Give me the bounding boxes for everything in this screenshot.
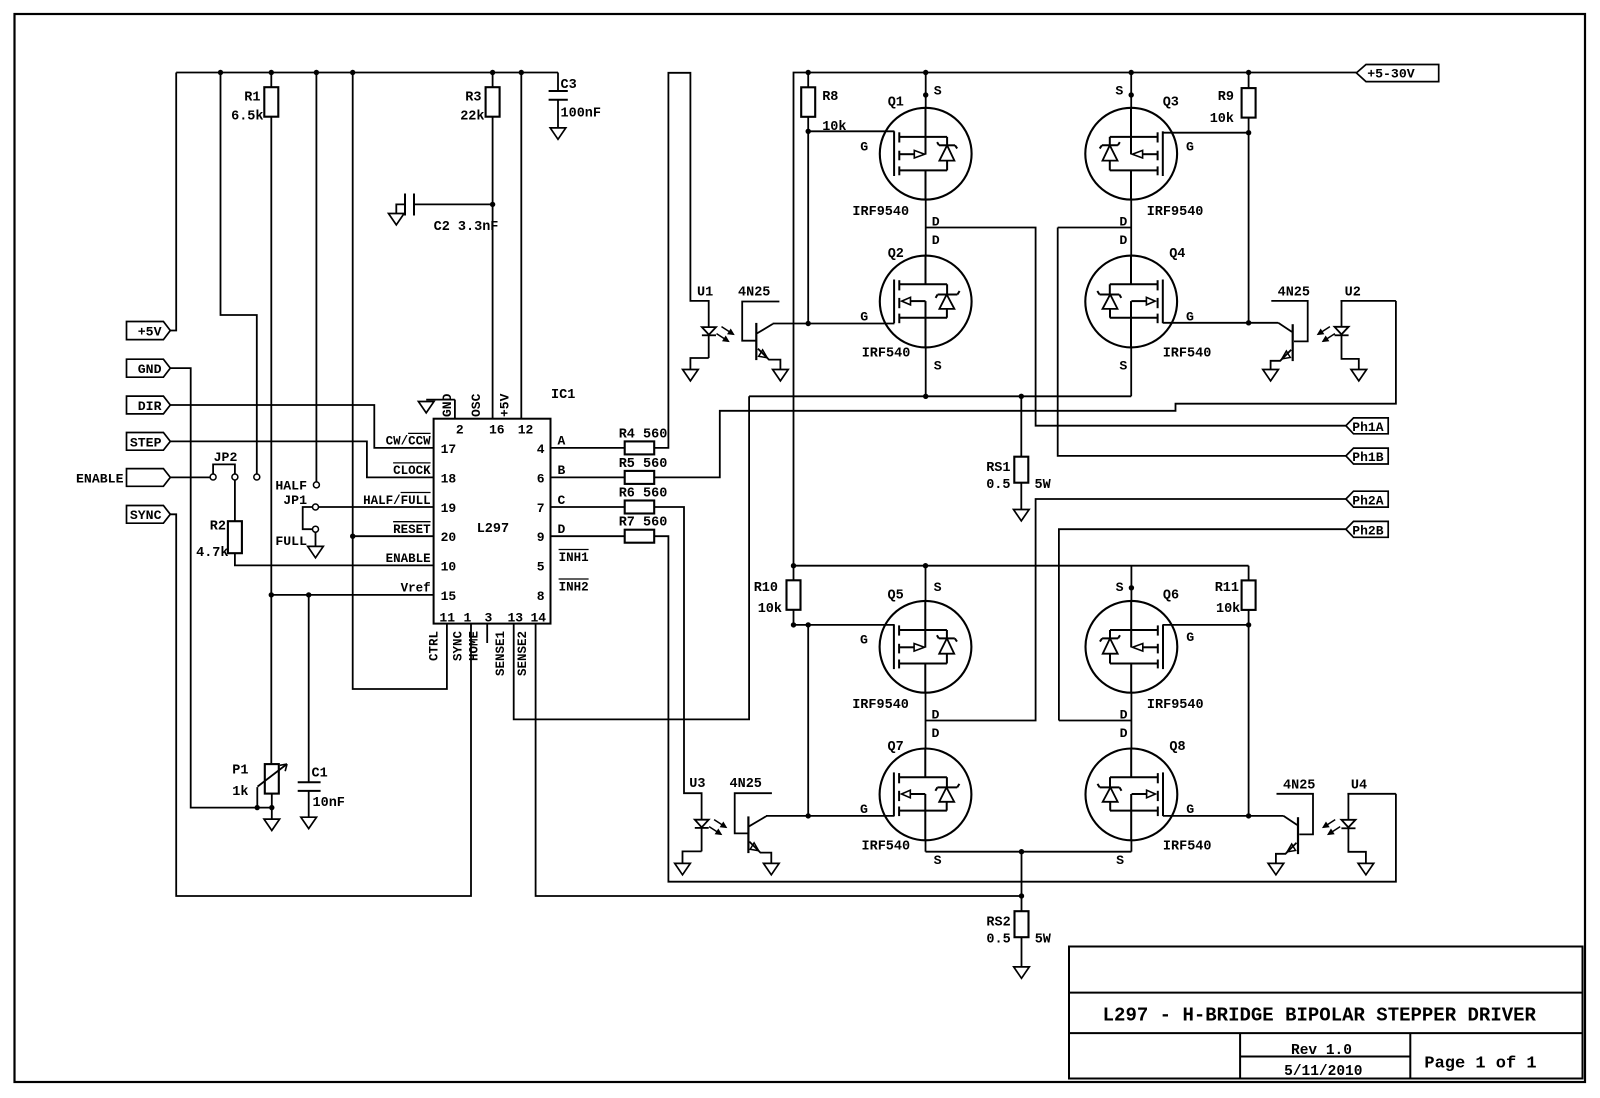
svg-text:IRF540: IRF540 bbox=[862, 839, 911, 854]
svg-text:G: G bbox=[860, 802, 868, 817]
svg-text:IRF9540: IRF9540 bbox=[1147, 205, 1204, 220]
svg-text:GND: GND bbox=[440, 393, 455, 417]
svg-text:18: 18 bbox=[441, 471, 457, 486]
+5-30V power flag bbox=[1356, 65, 1438, 82]
svg-text:SENSE2: SENSE2 bbox=[516, 631, 530, 676]
wire Q1 drain to phase node bbox=[925, 200, 927, 228]
svg-text:HALF/FULL: HALF/FULL bbox=[363, 494, 431, 508]
svg-text:HOME: HOME bbox=[468, 631, 482, 661]
svg-text:DIR: DIR bbox=[138, 399, 162, 414]
svg-text:GND: GND bbox=[138, 362, 162, 377]
svg-text:5: 5 bbox=[537, 559, 545, 574]
wire STEP to pin 18 bbox=[170, 441, 433, 477]
ground for U1 LED bbox=[683, 370, 699, 381]
svg-text:15: 15 bbox=[441, 589, 457, 604]
wire Q4 drain bbox=[1130, 228, 1132, 256]
wire R1 to Vref and P1 bbox=[270, 117, 272, 764]
svg-text:R4 560: R4 560 bbox=[619, 427, 668, 442]
transistor Q3 IRF9540 bbox=[1085, 83, 1203, 229]
svg-text:C3: C3 bbox=[561, 78, 577, 93]
net flag Ph2A bbox=[1346, 491, 1388, 508]
svg-text:Ph1A: Ph1A bbox=[1352, 420, 1383, 435]
svg-text:G: G bbox=[860, 309, 868, 324]
IC1 pin 15 Vref bbox=[401, 582, 457, 604]
svg-text:4N25: 4N25 bbox=[1283, 779, 1315, 794]
svg-text:4: 4 bbox=[537, 442, 545, 457]
wire SENSE1 net bbox=[514, 396, 749, 719]
U4 light arrows bbox=[1323, 820, 1340, 835]
wire Q8 drain bbox=[1130, 721, 1132, 749]
svg-text:D: D bbox=[932, 233, 940, 248]
svg-text:IRF540: IRF540 bbox=[862, 347, 911, 362]
svg-text:S: S bbox=[934, 580, 942, 595]
svg-text:5W: 5W bbox=[1035, 933, 1052, 948]
svg-text:U1: U1 bbox=[697, 286, 713, 301]
svg-text:R7 560: R7 560 bbox=[619, 516, 668, 531]
optocoupler U3 4N25 (transistor) bbox=[730, 777, 809, 864]
IC1 pin 12 +5V bbox=[498, 393, 534, 437]
IC1 pin 10 ENABLE bbox=[386, 552, 457, 574]
wire ENABLE to JP2 bbox=[170, 476, 210, 478]
svg-text:G: G bbox=[1186, 139, 1194, 154]
title block bbox=[1069, 947, 1583, 1081]
net flag Ph1B bbox=[1346, 448, 1388, 465]
svg-text:12: 12 bbox=[518, 423, 534, 438]
junction dot Q2 source at sense1 bbox=[923, 394, 928, 399]
IC1 pin 3 HOME stub bbox=[486, 624, 488, 643]
ground for P1 bbox=[264, 819, 280, 830]
wire +5V top rail bbox=[176, 72, 558, 74]
svg-text:JP2: JP2 bbox=[214, 450, 238, 465]
svg-text:8: 8 bbox=[537, 589, 545, 604]
junction dot R11 bottom bbox=[1246, 622, 1251, 627]
ground for U4 emitter bbox=[1268, 863, 1284, 874]
junction dot U1 collector / Q2 gate bbox=[806, 321, 811, 326]
wire Q3 drain to phase node bbox=[1130, 200, 1132, 228]
svg-text:100nF: 100nF bbox=[561, 107, 602, 122]
transistor Q2 IRF540 bbox=[860, 233, 971, 374]
svg-text:Ph2A: Ph2A bbox=[1352, 493, 1383, 508]
svg-text:C1: C1 bbox=[312, 767, 328, 782]
junction dot U4 collector / Q8 gate bbox=[1246, 813, 1251, 818]
wire Ph2B node bbox=[1059, 529, 1346, 720]
svg-text:FULL: FULL bbox=[275, 534, 307, 549]
svg-text:7: 7 bbox=[537, 501, 545, 516]
svg-text:10k: 10k bbox=[822, 120, 846, 135]
svg-text:S: S bbox=[1115, 83, 1123, 98]
jumper JP2 bbox=[210, 450, 238, 480]
svg-text:4N25: 4N25 bbox=[738, 286, 770, 301]
GND input flag bbox=[127, 359, 171, 377]
svg-text:R5 560: R5 560 bbox=[619, 457, 668, 472]
potentiometer P1 bbox=[232, 764, 287, 808]
svg-text:10k: 10k bbox=[1210, 112, 1234, 127]
transistor Q5 IRF9540 bbox=[852, 580, 971, 723]
STEP input flag bbox=[127, 433, 171, 451]
U2 light arrows bbox=[1318, 327, 1335, 342]
svg-text:R3: R3 bbox=[465, 91, 481, 106]
svg-text:+5-30V: +5-30V bbox=[1367, 66, 1415, 81]
svg-text:R6 560: R6 560 bbox=[619, 487, 668, 502]
wire Q6 drain to phase node bbox=[1130, 693, 1132, 721]
svg-text:JP1: JP1 bbox=[283, 493, 307, 508]
HALF pin bbox=[275, 478, 319, 493]
svg-text:R10: R10 bbox=[754, 581, 778, 596]
IC1 pin 18 CLOCK bbox=[393, 463, 456, 487]
wire Q5 source to rail bbox=[925, 566, 927, 601]
svg-text:IRF9540: IRF9540 bbox=[1147, 698, 1204, 713]
junction dot RS2 top bbox=[1019, 849, 1024, 854]
svg-text:Ph2B: Ph2B bbox=[1352, 524, 1383, 539]
resistor R5 560 bbox=[551, 457, 668, 484]
optocoupler U3 4N25 (LED) bbox=[683, 777, 709, 864]
svg-text:SYNC: SYNC bbox=[452, 630, 466, 661]
wire GND net bbox=[170, 368, 271, 807]
wire Q3 source to rail bbox=[1130, 73, 1132, 108]
resistor R7 560 bbox=[551, 516, 668, 543]
svg-text:10nF: 10nF bbox=[313, 796, 345, 811]
IC1 pin 3 HOME bbox=[468, 611, 493, 661]
svg-text:Vref: Vref bbox=[401, 582, 431, 596]
transistor Q8 IRF540 bbox=[1086, 726, 1212, 868]
junction dot Q3 source stub bbox=[1129, 92, 1134, 97]
svg-text:16: 16 bbox=[489, 423, 505, 438]
svg-text:IRF9540: IRF9540 bbox=[852, 205, 909, 220]
wire R2 to ENABLE pin 10 bbox=[235, 553, 434, 565]
transistor Q4 IRF540 bbox=[1085, 233, 1211, 374]
svg-text:ENABLE: ENABLE bbox=[386, 552, 431, 566]
resistor R8 bbox=[801, 73, 846, 136]
ground for U4 LED bbox=[1358, 863, 1374, 874]
wire Q7 source to RS2 row bbox=[925, 840, 927, 851]
junction dot Q1 source stub bbox=[923, 92, 928, 97]
resistor R3 bbox=[460, 73, 499, 125]
junction dot R9 bottom bbox=[1246, 130, 1251, 135]
svg-text:13: 13 bbox=[508, 611, 524, 626]
wire Q2 drain bbox=[925, 228, 927, 256]
svg-text:STEP: STEP bbox=[130, 435, 162, 450]
svg-text:Rev 1.0: Rev 1.0 bbox=[1291, 1043, 1352, 1059]
svg-text:22k: 22k bbox=[460, 110, 484, 125]
transistor Q1 IRF9540 bbox=[852, 83, 971, 229]
IC1 pin 5 INH1 bbox=[537, 550, 589, 575]
ground for U2 emitter bbox=[1263, 370, 1279, 381]
wire RESET pin 20 bbox=[353, 535, 434, 537]
wire rail to RESET and CTRL bbox=[353, 73, 447, 690]
junction dot rail corner R10 bbox=[791, 563, 796, 568]
wire SENSE2 net bbox=[536, 624, 1022, 896]
junction dot C2 on OSC net bbox=[490, 202, 495, 207]
svg-text:Q6: Q6 bbox=[1163, 588, 1179, 603]
svg-text:HALF: HALF bbox=[275, 478, 307, 493]
resistor R11 bbox=[1215, 566, 1256, 617]
wire +5V flag to rail bbox=[170, 73, 176, 331]
wire net A to U1 bbox=[654, 73, 709, 448]
wire Vref net bbox=[271, 594, 433, 596]
svg-text:5W: 5W bbox=[1035, 478, 1052, 493]
jumper JP1 bbox=[283, 493, 318, 532]
optocoupler U4 4N25 (transistor) bbox=[1249, 779, 1316, 864]
IC1 pin 6 phase B bbox=[537, 463, 566, 486]
wire Q4 source to sense bbox=[1130, 347, 1132, 396]
ENABLE input flag bbox=[76, 469, 170, 487]
IC1 pin 20 RESET bbox=[393, 522, 456, 546]
wire DIR to pin 17 bbox=[170, 405, 433, 448]
svg-text:S: S bbox=[934, 853, 942, 868]
IC1 pin 2 GND bbox=[426, 393, 464, 437]
svg-text:0.5: 0.5 bbox=[986, 478, 1010, 493]
svg-text:Q5: Q5 bbox=[888, 588, 904, 603]
svg-text:17: 17 bbox=[441, 442, 457, 457]
wire Q8 source to RS2 row bbox=[1130, 840, 1132, 851]
svg-text:Q3: Q3 bbox=[1163, 95, 1179, 110]
svg-text:OSC: OSC bbox=[469, 393, 484, 417]
svg-text:IRF9540: IRF9540 bbox=[852, 698, 909, 713]
junction dot Q6 source stub bbox=[1129, 585, 1134, 590]
svg-text:SYNC: SYNC bbox=[130, 508, 162, 523]
svg-text:11: 11 bbox=[439, 611, 455, 626]
U3 light arrows bbox=[709, 820, 726, 835]
junction dot R10 bottom bbox=[791, 622, 796, 627]
svg-text:S: S bbox=[1116, 853, 1124, 868]
wire Q6 source to rail bbox=[1130, 566, 1132, 601]
transistor Q7 IRF540 bbox=[860, 726, 971, 868]
svg-text:CW/CCW: CW/CCW bbox=[386, 435, 432, 449]
U1 light arrows bbox=[717, 327, 734, 342]
junction dots on +5V rail bbox=[218, 70, 524, 75]
svg-text:R9: R9 bbox=[1218, 90, 1234, 105]
resistor R2 bbox=[196, 520, 242, 562]
svg-text:20: 20 bbox=[441, 530, 457, 545]
junction dot U2 collector / Q4 gate bbox=[1246, 320, 1251, 325]
junction dots on +5-30V rail bbox=[806, 70, 1252, 75]
IC1 pin 19 HALF/FULL bbox=[363, 493, 456, 517]
IC1 pin 17 CW/CCW bbox=[386, 433, 457, 457]
svg-text:1: 1 bbox=[464, 611, 472, 626]
junction dot P1 wiper on GND bbox=[255, 805, 260, 810]
wire Q1 source to rail bbox=[925, 73, 927, 108]
svg-text:S: S bbox=[934, 359, 942, 374]
resistor R10 bbox=[754, 566, 801, 617]
svg-text:Ph1B: Ph1B bbox=[1352, 450, 1383, 465]
svg-text:CTRL: CTRL bbox=[427, 631, 441, 661]
svg-text:U4: U4 bbox=[1351, 779, 1367, 794]
svg-text:Q1: Q1 bbox=[888, 95, 904, 110]
capacitor C2 bbox=[396, 194, 498, 236]
svg-text:G: G bbox=[1186, 802, 1194, 817]
SYNC input flag bbox=[127, 506, 171, 524]
wire Q2 source to sense bbox=[925, 347, 927, 396]
junction dot P1 bottom on GND bbox=[269, 805, 274, 810]
ground for U3 LED bbox=[675, 863, 691, 874]
ground for U1 emitter bbox=[773, 370, 789, 381]
svg-text:D: D bbox=[558, 522, 566, 537]
svg-text:3: 3 bbox=[485, 611, 493, 626]
wire bottom bridge rail bbox=[794, 565, 1249, 567]
IC1 pin 7 phase C bbox=[537, 493, 566, 516]
resistor R4 560 bbox=[551, 427, 668, 454]
IC1 pin 4 phase A bbox=[537, 434, 566, 457]
junction dot RS1 top bbox=[1019, 394, 1024, 399]
svg-text:S: S bbox=[934, 83, 942, 98]
svg-text:P1: P1 bbox=[232, 764, 248, 779]
svg-text:R1: R1 bbox=[244, 91, 260, 106]
junction dot U3 collector / Q7 gate bbox=[806, 813, 811, 818]
optocoupler U2 4N25 (transistor) bbox=[1249, 286, 1310, 370]
wire +5-30V rail bbox=[794, 73, 1357, 566]
wire R10 to Q5 gate bbox=[794, 610, 895, 625]
svg-text:RS1: RS1 bbox=[986, 461, 1010, 476]
svg-text:IRF540: IRF540 bbox=[1163, 839, 1212, 854]
svg-text:U2: U2 bbox=[1345, 286, 1361, 301]
ground at IC1 GND pin bbox=[418, 402, 434, 413]
svg-text:19: 19 bbox=[441, 501, 457, 516]
resistor R9 bbox=[1210, 73, 1256, 128]
wire rail to +5V pin 12 bbox=[520, 73, 522, 419]
svg-text:Page 1 of 1: Page 1 of 1 bbox=[1424, 1055, 1536, 1074]
wire net D to U4 bbox=[654, 536, 1396, 882]
svg-text:U3: U3 bbox=[689, 777, 705, 792]
ground for C1 bbox=[301, 817, 317, 828]
svg-text:C2 3.3nF: C2 3.3nF bbox=[434, 220, 499, 235]
JP2 right pin (to +5V) bbox=[254, 474, 260, 480]
junction dot Q5 source at rail bbox=[923, 563, 928, 568]
capacitor C1 bbox=[298, 595, 345, 817]
ground for RS2 bbox=[1014, 967, 1030, 978]
wire Q7 drain bbox=[925, 721, 927, 749]
svg-text:10k: 10k bbox=[758, 602, 782, 617]
wire net C to U3 bbox=[654, 507, 701, 820]
IC1 pin 13 SENSE1 bbox=[494, 611, 523, 676]
svg-text:B: B bbox=[558, 463, 566, 478]
DIR input flag bbox=[127, 396, 171, 414]
wire Ph1B node bbox=[1058, 228, 1346, 456]
wire Q4 gate bbox=[1163, 322, 1249, 324]
wire net B to U2 bbox=[654, 301, 1396, 478]
junction dot Vref at C1 bbox=[306, 592, 311, 597]
svg-text:6: 6 bbox=[537, 471, 545, 486]
svg-text:14: 14 bbox=[531, 611, 547, 626]
wire Ph2A node bbox=[926, 499, 1346, 721]
svg-text:10: 10 bbox=[441, 559, 457, 574]
ground for U2 LED bbox=[1351, 370, 1367, 381]
resistor RS2 bbox=[986, 852, 1051, 948]
svg-text:RESET: RESET bbox=[393, 523, 431, 537]
svg-text:4N25: 4N25 bbox=[730, 777, 762, 792]
svg-text:5/11/2010: 5/11/2010 bbox=[1284, 1064, 1362, 1080]
svg-text:RS2: RS2 bbox=[986, 916, 1010, 931]
svg-text:4.7k: 4.7k bbox=[196, 546, 228, 561]
wire JP1 to pin 19 bbox=[318, 506, 433, 508]
svg-text:Q7: Q7 bbox=[888, 740, 904, 755]
svg-text:CLOCK: CLOCK bbox=[393, 464, 431, 478]
svg-text:+5V: +5V bbox=[138, 325, 162, 340]
svg-text:Q8: Q8 bbox=[1169, 740, 1185, 755]
capacitor C3 bbox=[549, 73, 601, 128]
wire U3 collector riser bbox=[807, 625, 809, 816]
svg-text:L297 - H-BRIDGE BIPOLAR STEPPE: L297 - H-BRIDGE BIPOLAR STEPPER DRIVER bbox=[1103, 1005, 1537, 1027]
wire Ph1A node bbox=[926, 228, 1346, 426]
svg-text:IC1: IC1 bbox=[551, 388, 575, 403]
svg-text:1k: 1k bbox=[232, 785, 248, 800]
FULL pin bbox=[275, 532, 315, 549]
wire SYNC to pin 1 bbox=[170, 514, 471, 896]
svg-text:Q2: Q2 bbox=[888, 247, 904, 262]
svg-text:G: G bbox=[860, 632, 868, 647]
svg-text:9: 9 bbox=[537, 530, 545, 545]
junction dot RESET pullup bbox=[350, 534, 355, 539]
wire JP2 to R2 bbox=[234, 480, 236, 522]
IC1 pin 9 phase D bbox=[537, 522, 566, 545]
IC1 pin 16 OSC bbox=[469, 393, 505, 437]
svg-text:A: A bbox=[558, 434, 566, 449]
svg-text:ENABLE: ENABLE bbox=[76, 471, 124, 486]
svg-text:R11: R11 bbox=[1215, 581, 1239, 596]
svg-text:Q4: Q4 bbox=[1169, 247, 1185, 262]
junction dot SENSE2 at RS2 bbox=[1019, 893, 1024, 898]
wire rail to JP2 right pin bbox=[221, 73, 257, 475]
+5V input flag bbox=[127, 322, 171, 340]
svg-text:G: G bbox=[1186, 309, 1194, 324]
IC1 pin 14 SENSE2 bbox=[516, 611, 546, 676]
svg-text:R8: R8 bbox=[822, 90, 838, 105]
wire P1 bottom to ground bbox=[271, 808, 273, 820]
ground for C2 bbox=[389, 214, 405, 225]
junction dot R8 bottom bbox=[806, 129, 811, 134]
wire U1 collector to Q2 gate bbox=[808, 323, 894, 325]
wire U3 collector to Q7 gate bbox=[808, 815, 894, 817]
svg-text:L297: L297 bbox=[477, 522, 509, 537]
wire source row bottom bridge bbox=[926, 851, 1132, 853]
wire R3 to OSC pin 16 bbox=[492, 117, 494, 419]
svg-text:D: D bbox=[1120, 726, 1128, 741]
svg-text:G: G bbox=[1186, 630, 1194, 645]
wire R11 to Q6 gate bbox=[1163, 610, 1249, 816]
junction dot Vref at R1/P1 bbox=[269, 592, 274, 597]
wire rail to HALF pin bbox=[315, 73, 317, 483]
wire RS1 to ground bbox=[1020, 483, 1022, 510]
svg-text:0.5: 0.5 bbox=[986, 933, 1010, 948]
wire RS2 to ground bbox=[1021, 937, 1023, 967]
optocoupler U1 4N25 (LED) bbox=[690, 286, 716, 370]
svg-text:6.5k: 6.5k bbox=[231, 110, 263, 125]
optocoupler U2 4N25 (LED) bbox=[1335, 286, 1396, 370]
svg-text:R2: R2 bbox=[210, 520, 226, 535]
svg-text:G: G bbox=[860, 139, 868, 154]
transistor Q6 IRF9540 bbox=[1086, 580, 1204, 723]
wire R9 to Q3 gate bbox=[1163, 118, 1249, 323]
wire Q8 gate bbox=[1163, 815, 1249, 817]
ground for U3 emitter bbox=[764, 863, 780, 874]
svg-text:4N25: 4N25 bbox=[1278, 286, 1310, 301]
svg-text:2: 2 bbox=[456, 423, 464, 438]
svg-text:S: S bbox=[1119, 359, 1127, 374]
IC U1 - IC1 L297 stepper controller bbox=[434, 388, 576, 623]
svg-text:S: S bbox=[1116, 580, 1124, 595]
junction dot U3 collector branch bbox=[806, 622, 811, 627]
svg-text:IRF540: IRF540 bbox=[1163, 347, 1212, 362]
wire Q5 drain to phase node bbox=[925, 693, 927, 721]
svg-text:INH2: INH2 bbox=[559, 580, 589, 594]
optocoupler U1 4N25 (transistor) bbox=[738, 286, 808, 370]
resistor R6 560 bbox=[551, 487, 668, 514]
optocoupler U4 4N25 (LED) bbox=[1341, 779, 1396, 864]
svg-text:D: D bbox=[1119, 233, 1127, 248]
resistor R1 bbox=[231, 73, 278, 125]
net flag Ph2B bbox=[1346, 521, 1388, 538]
resistor RS1 bbox=[986, 396, 1051, 493]
IC1 pin 1 SYNC bbox=[452, 611, 472, 661]
